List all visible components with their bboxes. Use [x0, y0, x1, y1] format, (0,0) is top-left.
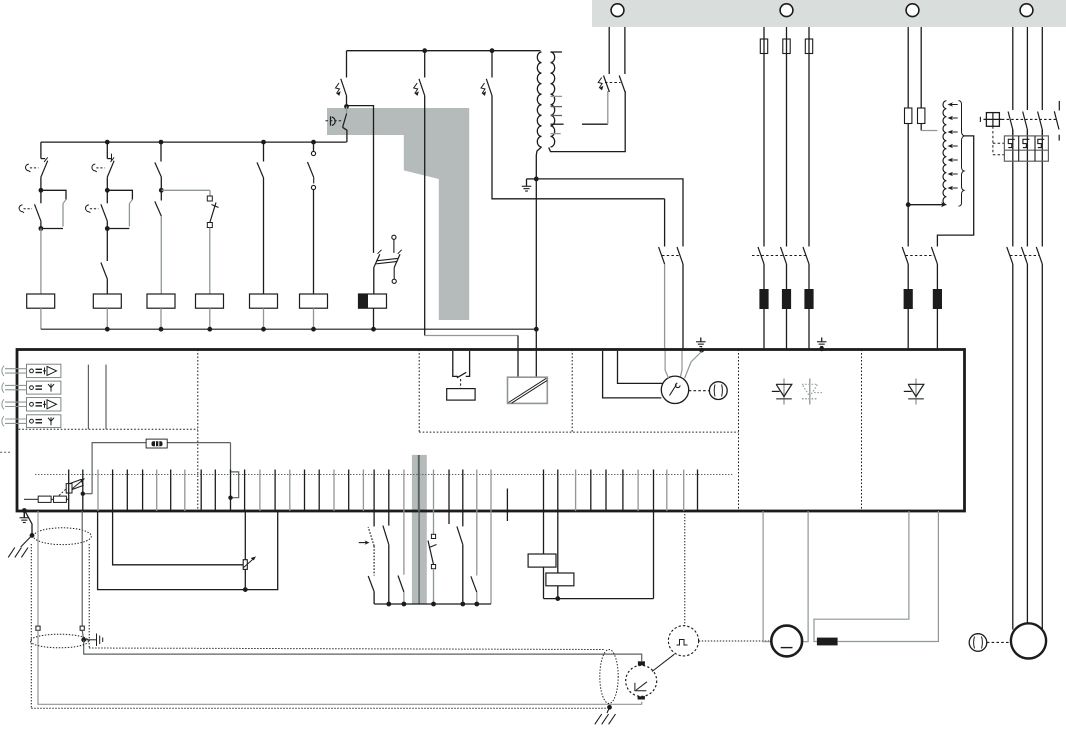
module 2 input stubs [5, 384, 27, 386]
terminal pin x=363.4 [362, 470, 364, 512]
thyristor V2 (phantom) [809, 379, 811, 405]
dashed sub-box (brake control) [418, 350, 420, 433]
setpoint wire A [113, 511, 244, 565]
node branch1 [39, 188, 44, 193]
contactor K4 left pole [902, 247, 908, 264]
node at terminal 230.5 [228, 496, 232, 500]
node choke feed [906, 202, 911, 207]
terminal pin x=259.9 [259, 470, 261, 512]
encoder terminal lower [638, 695, 645, 699]
input module 1 [27, 364, 61, 377]
supply terminal circle 1 [611, 4, 624, 17]
node Q3 tap [490, 48, 495, 53]
node Q2 tap [422, 48, 427, 53]
contact bank pole 8 [476, 511, 478, 576]
dashed link to brake release [689, 390, 710, 392]
wire to monitoring fuse [92, 443, 230, 494]
node on control bus x=263.5 [261, 140, 266, 145]
wire K2a left to box [664, 264, 666, 351]
screen node 3 [607, 705, 612, 710]
terminal pin x=201.2 [200, 470, 202, 512]
wire Q3 down and right [492, 96, 665, 199]
pot lower wire + node [244, 569, 246, 589]
terminal pin x=184.8 [184, 470, 186, 512]
proximity contact S6 lower terminal [311, 185, 315, 189]
dashed link trim [59, 488, 67, 496]
wire to coil K12 [106, 280, 108, 295]
relay coil K14 [196, 294, 224, 308]
wire to choke bottom [908, 204, 943, 206]
node transformer centre [534, 177, 539, 182]
terminal pin x=462.8 [462, 470, 464, 512]
wire branch2 drop [106, 142, 108, 159]
dashed separator x=738.5 [738, 350, 740, 512]
contactor K4 right pole [931, 247, 937, 264]
terminal pin x=82.8 [82, 470, 84, 512]
terminal pin x=68.7 [68, 470, 70, 512]
breaker Q1 [346, 51, 348, 78]
relay coil K15 [250, 294, 278, 308]
terminal pin x=142.6 [142, 470, 144, 512]
wire box to screen node [26, 512, 33, 535]
contact bank pole 7 [462, 511, 464, 526]
gray wires brake to box top [665, 351, 668, 378]
terminal pin x=697.5 [697, 470, 699, 512]
control circuit bottom bus [41, 328, 536, 330]
terminal pin x=491.0 [490, 470, 492, 512]
cable screen ellipse 1 [34, 528, 92, 545]
contact bank pole 1 (dotted) [373, 511, 375, 527]
terminal pin x=215.3 [214, 470, 216, 512]
screen node [30, 533, 35, 538]
wire F2.2 stub (gray) [921, 130, 937, 132]
fuse F2.1 [907, 27, 909, 108]
earth at transformer [527, 178, 537, 180]
thermal element 1 [1008, 139, 1015, 147]
three-phase lines to motor M2 [1012, 264, 1014, 630]
auxiliary contact K-branch2 [101, 263, 108, 280]
brake resistor wire left [814, 511, 909, 642]
wire to key switch [161, 189, 210, 191]
switch S1a (NC pushbutton) [41, 158, 45, 160]
terminal pin x=98.0 [97, 470, 99, 512]
wire to brake left upper [618, 351, 663, 383]
terminal pin x=557.8 [557, 470, 559, 512]
terminal pin x=289.8 [289, 470, 291, 512]
wire K2a right to box [682, 264, 684, 351]
wire output relay 2 [557, 511, 559, 599]
wire S0 to control bus [343, 127, 347, 142]
node bottom bus x=107.3 [105, 327, 110, 332]
terminal pin x=244.6 [244, 470, 246, 512]
input module 4 [27, 415, 61, 428]
trim potentiometer [70, 479, 83, 489]
brake coil circle [969, 634, 987, 652]
earth symbol above box (right) [821, 338, 823, 342]
dashed link brake to motor [987, 641, 1011, 643]
wire to coil K15 [263, 178, 265, 294]
contact S3b [160, 190, 162, 200]
contactor K2a right pole [677, 247, 683, 264]
wire overload 2 to box [786, 309, 788, 351]
monitoring fuse component [146, 439, 167, 448]
relay coil K16 [300, 294, 328, 308]
wire F1.2 down [786, 54, 788, 247]
breaker Q2 [424, 51, 426, 78]
conductor 2 lower [84, 640, 642, 661]
cable screen ellipse 2 [30, 634, 88, 648]
supply terminal circle 3 [906, 4, 919, 17]
thermal overload F4.3 [808, 264, 810, 289]
contact bank pole 2 [388, 511, 390, 526]
key switch lower terminal [207, 223, 212, 228]
terminal strip dotted line [35, 474, 733, 476]
wire from Q1 node to contactor branch [347, 106, 374, 253]
node bottom bus x=373.5 [371, 327, 376, 332]
node on box top edge right [819, 346, 824, 351]
terminal pin x=334.0 [333, 470, 335, 512]
wire Q2 to converter (gray) [425, 335, 518, 337]
wire choke output [937, 136, 973, 247]
chassis ground lead [21, 535, 32, 547]
QM trip lever [1058, 101, 1060, 111]
contact bank pole 9 [490, 511, 492, 604]
dashed stub left edge [0, 451, 10, 453]
DC motor M1 [771, 626, 802, 657]
connector square 2 [80, 626, 84, 630]
screen wire left (dotted) [30, 544, 32, 708]
contactor K3 pole 3 [803, 247, 809, 264]
screen wire right (dotted) [88, 544, 90, 648]
contact bank pole 3 [403, 511, 405, 575]
thermal element 2 [1023, 139, 1030, 147]
earth below box corner [23, 512, 25, 518]
secondary bottom lead [549, 91, 626, 152]
relay coil K11 [27, 294, 55, 308]
module 4 input stubs [5, 418, 27, 420]
motor contactor K5 poles [1007, 247, 1013, 264]
mechanical link encoder-tacho [652, 654, 674, 671]
wire branch6 drop [313, 142, 315, 151]
relay coil K13 [147, 294, 175, 308]
QM dashed trip to overload [992, 126, 994, 155]
brake resistor R [817, 638, 838, 646]
breaker Qt right pole contact [619, 76, 625, 93]
thermal overload F4.1 [763, 264, 765, 289]
wire transformer node to contactor K2a [536, 179, 683, 247]
top distribution bus [347, 50, 541, 52]
input module 2 [27, 381, 61, 394]
terminal pin x=388.8 [388, 470, 390, 512]
terminal pin x=374.1 [373, 470, 375, 512]
output relay coil K20 [528, 554, 556, 567]
choke / tapped winding L1 [943, 101, 946, 205]
wire to contactor coil K1 [373, 268, 375, 295]
armature wire left [763, 511, 771, 642]
terminal pin x=112.6 [112, 470, 114, 512]
key switch upper terminal [207, 196, 212, 201]
thermostat contact wires [453, 351, 458, 376]
wire to coil K16 [313, 190, 315, 294]
thyristor V1 [783, 379, 785, 405]
conductor 1 lower [38, 630, 642, 704]
contactor K3 pole 1 [758, 247, 764, 264]
breaker Qt left pole contact [604, 76, 610, 93]
wire F1.1 down [763, 54, 765, 247]
terminal pin x=638.1 [637, 470, 639, 512]
terminal pin x=275.1 [274, 470, 276, 512]
motor M2 [1011, 623, 1046, 658]
fuse F2.2 [920, 27, 922, 108]
screen wire bottom (dotted) [31, 707, 606, 709]
contactor coil K1 (with black field) [359, 294, 387, 308]
node branch3 [160, 177, 162, 190]
terminal pin x=476.8 [476, 470, 478, 512]
motor breaker QM pole 1 wire [1012, 27, 1014, 110]
dashed separator x=197.8 [197, 350, 199, 512]
setpoint potentiometer R11 [243, 560, 247, 570]
linkage chamber S2 [107, 190, 132, 199]
terminal pin x=575.6 [575, 470, 577, 512]
contact S3a [155, 162, 162, 177]
screen node 2 [81, 637, 86, 642]
supply terminal circle 4 [1020, 4, 1033, 17]
node branch1 lower [39, 226, 44, 231]
input module 3 [27, 398, 61, 411]
contact bank pole 6 (stub) [448, 511, 450, 524]
terminal pin x=543.5 [543, 470, 545, 512]
node bottom bus right [534, 327, 539, 332]
three-phase lines through overload [1012, 130, 1014, 247]
fuse F1.1 [763, 27, 765, 39]
conductor 2 to node [82, 630, 84, 640]
fuse F1.2 [786, 27, 788, 39]
setpoint return wire [98, 511, 278, 590]
choke taps with arrows [952, 104, 958, 106]
supply terminal circle 2 [780, 4, 793, 17]
tap wire to breaker Qt [582, 123, 608, 125]
wire branch1 drop [40, 142, 42, 159]
wire to brake left lower [603, 351, 662, 398]
connector square 1 [36, 626, 40, 630]
motor contactor K5 linkage [1010, 255, 1040, 257]
proximity contact S6 [308, 162, 314, 177]
wire output relay 1 [543, 511, 545, 599]
earth symbol above box (left) [700, 338, 702, 342]
thermal overload F5.2 [936, 264, 938, 289]
thermal overload F5.1 [907, 264, 909, 289]
main switch S0 (handle) [346, 107, 348, 114]
wire Q2 down [424, 96, 426, 336]
module bus lines [87, 365, 89, 430]
relay common wire [544, 598, 654, 600]
terminal pin x=449.0 [448, 470, 450, 512]
mechanical linkage with test contact [392, 235, 396, 239]
encoder terminal upper [638, 661, 645, 666]
wire overload 1 to box [763, 309, 765, 351]
proximity contact S6 upper terminal [311, 151, 315, 155]
motor breaker QM pole 2 wire [1026, 27, 1028, 110]
node branch2 lower [105, 226, 110, 231]
brake release circle [709, 382, 727, 400]
QM contact 3 [1038, 112, 1043, 130]
main drive unit box [17, 350, 965, 512]
terminal pin x=348.7 [348, 470, 350, 512]
switch S1b (pushbutton contact) [40, 190, 42, 203]
wire to coil K14 [209, 228, 211, 295]
contactor K2a linkage [662, 255, 680, 257]
terminal pin x=170.7 [170, 470, 172, 512]
node bottom bus x=313.5 [311, 327, 316, 332]
terminal pin x=156.7 [156, 470, 158, 512]
earth at node 2 [84, 639, 97, 641]
highlighted current path (gray) [327, 108, 469, 320]
terminal pin x=319.2 [318, 470, 320, 512]
transformer T1 primary winding [537, 52, 541, 147]
breaker Qt poles from terminal bar [608, 27, 610, 74]
contactor K3 linkage [752, 255, 806, 257]
wire branch2 to contact [106, 229, 108, 262]
dashed link to coil [460, 379, 462, 389]
motor breaker QM pole 3 wire [1041, 27, 1043, 110]
module 3 input stubs [5, 401, 27, 403]
wire fuse right with jog [231, 443, 239, 498]
key switch contact [210, 203, 216, 223]
tacho / pulse generator [668, 626, 698, 656]
QM manual operator (cross box) [986, 113, 999, 127]
transformer T1 secondary winding [551, 52, 555, 147]
QM linkage (dashed) [1002, 118, 1056, 120]
brake magnet circle [661, 376, 688, 403]
choke selection braces [959, 101, 965, 207]
switch S2a (NC with position indicator) [107, 158, 111, 160]
wire to coil K13 [160, 216, 162, 294]
terminal pin x=433.5 [433, 470, 435, 512]
primary bottom lead [536, 147, 541, 179]
terminal pin x=666.8 [666, 470, 668, 512]
auxiliary contact K1 [378, 250, 382, 254]
conductor 1 (gray) [37, 511, 39, 626]
conductor 2 [81, 511, 83, 626]
node at terminal 82.8 [81, 492, 85, 496]
linkage chamber S1 [41, 190, 66, 199]
encoder G1 (dashed circle) [626, 665, 657, 696]
breaker Qt linkage [605, 82, 621, 84]
setpoint wire B [244, 511, 246, 560]
dashed wire box to tacho [684, 511, 686, 626]
setpoint converter block [508, 377, 548, 403]
QM thermal overload box [1004, 136, 1048, 161]
node on control bus x=107.3 [105, 140, 110, 145]
dashed module sub-box [19, 428, 198, 430]
relay coil K12 [93, 294, 121, 308]
relay coil (brake rectifier) [447, 389, 475, 401]
node on control bus x=161 [159, 140, 164, 145]
node Q1 output [344, 104, 349, 109]
node bottom bus x=263.5 [261, 327, 266, 332]
thermostat contact [457, 372, 466, 378]
node on box top edge [699, 348, 704, 353]
cable screen ellipse 3 (vertical) [600, 650, 618, 704]
module 1 input stubs [5, 368, 27, 370]
secondary top lead [551, 51, 563, 53]
node branch2 [105, 188, 110, 193]
thyristor V3 [915, 379, 917, 405]
contactor K2a left pole [659, 247, 665, 264]
terminal pin x=590.8 [590, 470, 592, 512]
secondary taps [551, 95, 563, 97]
terminal pin x=304.5 [304, 470, 306, 512]
terminal pin x=403.9 [403, 470, 405, 512]
fuse F1.3 [808, 27, 810, 39]
armature wire right [802, 511, 808, 642]
breaker Q3 [491, 51, 493, 78]
terminal pin x=418.6 (highlighted) [418, 455, 420, 511]
chassis ground encoder [607, 707, 610, 713]
contact bank pole 5 (plug link) [433, 511, 435, 534]
wire Q3 to contactor K2a left [664, 199, 666, 247]
trim resistors [24, 498, 38, 500]
terminal pin x=653.5 [653, 470, 655, 512]
terminal pin x=622.9 [622, 470, 624, 512]
highlighted path (gray bar through terminal area) [412, 455, 427, 604]
terminal pin x=683.7 [683, 470, 685, 512]
control bus L1 [41, 141, 347, 143]
contactor K4 linkage [906, 255, 935, 257]
wire overload 3 to box [808, 309, 810, 351]
node bottom bus x=161 [159, 327, 164, 332]
output relay coil K21 [546, 573, 574, 586]
wire to converter right [535, 329, 537, 377]
thermal overload F4.2 [786, 264, 788, 289]
QM contact 1 [1008, 112, 1013, 130]
contact S5 [257, 162, 264, 178]
dashed wire tacho to motor M1 [699, 640, 772, 642]
dashed separator x=861.5 [861, 350, 863, 512]
terminal pin x=507.4 [506, 489, 508, 522]
node bottom bus x=209.8 [207, 327, 212, 332]
thermal element 3 [1038, 139, 1045, 147]
wire F1.3 down [808, 54, 810, 247]
terminal bar (supply rail) [592, 0, 1066, 27]
terminal pin x=230.5 [230, 470, 232, 512]
wire branch3 drop [160, 142, 162, 161]
contactor K3 pole 2 [781, 247, 787, 264]
node on box bottom edge left [22, 508, 27, 513]
contact bank pole 4 (through) [418, 455, 420, 604]
switch S2b [106, 190, 108, 203]
node on control bus x=313.5 [311, 140, 316, 145]
contact bank bottom bus [374, 603, 491, 605]
wire branch5 drop [263, 142, 265, 161]
terminal pin x=127.3 [126, 470, 128, 512]
brake resistor wire right [838, 511, 939, 642]
wire transformer node down to bottom bus [535, 179, 537, 329]
terminal pin x=606.0 [605, 470, 607, 512]
wire to coil K11 [40, 229, 42, 295]
QM contact 2 [1023, 112, 1028, 130]
